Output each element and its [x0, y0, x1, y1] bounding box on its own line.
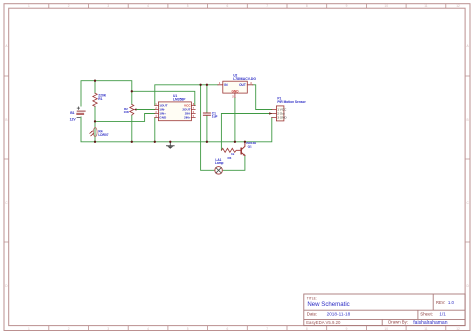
connector P1 pins [272, 110, 277, 118]
svg-text:10: 10 [384, 4, 388, 8]
wire R1 bottom to node [94, 106, 96, 121]
wire P1 Out to R3 [221, 114, 271, 151]
capacitor C1 labels [212, 111, 218, 118]
svg-text:6: 6 [227, 4, 229, 8]
svg-text:8: 8 [306, 4, 308, 8]
battery B1 [77, 107, 85, 118]
regulator U2 pins [218, 85, 253, 98]
transistor Q1 labels [246, 141, 256, 148]
svg-text:1k: 1k [231, 152, 235, 156]
wire battery bottom lead / ground bottom rail / P1 GND riser [81, 117, 272, 142]
svg-text:Date:: Date: [307, 311, 318, 316]
wire lamp right to Q1 emitter [222, 155, 245, 170]
svg-text:EasyEDA V5.9.20: EasyEDA V5.9.20 [306, 320, 341, 325]
op-amp U1 pins [155, 106, 195, 118]
capacitor C1 [203, 113, 210, 115]
potentiometer R2 labels [124, 107, 130, 114]
svg-text:faishalrahaman: faishalrahaman [413, 320, 447, 326]
svg-text:L7806ACV-DG: L7806ACV-DG [233, 77, 256, 81]
title block text [306, 296, 454, 326]
svg-text:LM358P: LM358P [173, 98, 186, 102]
svg-text:R3: R3 [228, 156, 232, 160]
svg-text:Drawn By:: Drawn By: [388, 320, 408, 325]
resistor R3 labels [228, 152, 235, 160]
photoresistor labels [98, 129, 108, 137]
svg-text:Lamp: Lamp [215, 161, 224, 165]
svg-text:12: 12 [456, 327, 460, 331]
connector P1 pin 2 arrow [269, 112, 272, 115]
svg-text:1: 1 [28, 327, 30, 331]
svg-text:4: 4 [147, 4, 149, 8]
svg-text:1uF: 1uF [212, 115, 218, 119]
resistor R1 [93, 93, 97, 106]
svg-text:1/1: 1/1 [439, 311, 446, 316]
potentiometer R2 [130, 104, 137, 115]
wire R2 wiper to U1 1IN- [136, 109, 155, 111]
regulator U2 labels [233, 73, 256, 81]
svg-text:Q1: Q1 [248, 145, 252, 149]
wire node to U1 1IN+ [95, 114, 155, 122]
wire lamp left column [201, 85, 215, 171]
svg-text:5: 5 [187, 4, 189, 8]
wire R1 top lead [94, 81, 96, 94]
junction dots [94, 80, 246, 143]
svg-text:REV:: REV: [436, 300, 445, 305]
photoresistor R4 LDR07 [90, 128, 97, 137]
wire U1 1OUT loop to 6V rail / regulator input rail [155, 85, 218, 106]
svg-text:Sheet:: Sheet: [420, 311, 433, 316]
svg-text:B: B [5, 118, 7, 122]
op-amp U1 pin numbers [155, 104, 194, 118]
svg-text:2IN+: 2IN+ [184, 116, 191, 120]
op-amp U1 body [158, 102, 191, 121]
svg-text:2: 2 [68, 4, 70, 8]
regulator U2 pin names [224, 83, 245, 93]
title block [304, 294, 465, 326]
svg-text:GND: GND [159, 116, 167, 120]
svg-text:11: 11 [424, 327, 428, 331]
svg-text:8: 8 [306, 327, 308, 331]
wire R2 bottom column [131, 115, 133, 142]
transistor Q1 [241, 142, 245, 156]
svg-text:11: 11 [424, 4, 428, 8]
lamp LA1 [215, 167, 223, 175]
regulator U2 body [223, 81, 248, 93]
svg-text:R1: R1 [98, 97, 102, 101]
svg-text:5: 5 [187, 327, 189, 331]
svg-text:12V: 12V [70, 118, 77, 122]
svg-text:6: 6 [227, 327, 229, 331]
wire U2 OUT to P1 VCC [253, 85, 272, 110]
svg-text:B1: B1 [70, 111, 74, 115]
svg-text:New Schematic: New Schematic [307, 301, 349, 308]
svg-text:B: B [467, 118, 469, 122]
svg-text:10: 10 [384, 327, 388, 331]
svg-text:3: 3 [107, 327, 109, 331]
resistor R3 [221, 148, 241, 152]
svg-text:10K: 10K [124, 110, 130, 114]
lamp LA1 labels [215, 158, 224, 165]
wire LDR column [94, 121, 96, 141]
svg-text:9: 9 [346, 327, 348, 331]
svg-text:2018-11-18: 2018-11-18 [327, 311, 351, 316]
svg-text:7: 7 [266, 4, 268, 8]
svg-text:9: 9 [346, 4, 348, 8]
svg-text:TITLE:: TITLE: [307, 296, 317, 300]
wire U1 GND drop [154, 118, 156, 142]
svg-text:3: 3 [107, 4, 109, 8]
battery B1 labels [70, 111, 77, 121]
wire 12V to U1 VCC [132, 91, 195, 105]
svg-text:PIR Motion Sensor: PIR Motion Sensor [277, 100, 306, 104]
svg-text:GND: GND [231, 89, 239, 93]
svg-text:OUT: OUT [239, 83, 246, 87]
svg-text:4: 4 [147, 327, 149, 331]
svg-text:LDR07: LDR07 [98, 133, 108, 137]
svg-text:7: 7 [266, 327, 268, 331]
svg-text:3 GND: 3 GND [277, 116, 287, 120]
resistor R1 labels [98, 93, 107, 100]
connector P1 body [276, 106, 284, 121]
svg-text:1: 1 [28, 4, 30, 8]
wire U2 GND drop [234, 98, 236, 142]
connector P1 labels [277, 97, 306, 105]
svg-text:12: 12 [456, 4, 460, 8]
ground symbol [166, 142, 175, 149]
op-amp U1 pin names [159, 104, 191, 120]
op-amp U1 labels [173, 94, 186, 102]
connector P1 pin names [277, 108, 287, 120]
regulator U2 pin numbers [219, 81, 252, 98]
wire C1 column [206, 85, 208, 142]
wire battery top lead / 12V top rail / R2 top column [81, 81, 132, 106]
svg-text:1.0: 1.0 [448, 300, 455, 305]
svg-text:2: 2 [68, 327, 70, 331]
